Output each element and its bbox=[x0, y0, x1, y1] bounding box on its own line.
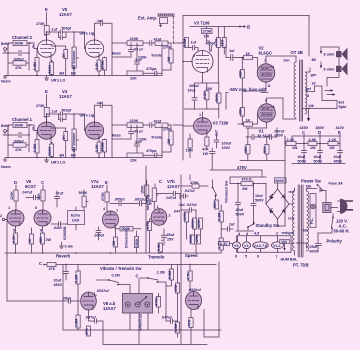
svg-text:2: 2 bbox=[276, 232, 278, 236]
svg-text:1W: 1W bbox=[310, 146, 316, 150]
svg-text:V4,6,7,8: V4,6,7,8 bbox=[254, 244, 268, 248]
svg-text:47K: 47K bbox=[187, 319, 191, 326]
svg-text:C: C bbox=[159, 179, 162, 184]
svg-text:1uf: 1uf bbox=[229, 49, 235, 53]
speaker 1 bbox=[336, 51, 342, 57]
svg-text:.1uf: .1uf bbox=[51, 28, 58, 32]
resistor 5.6M vib bbox=[76, 271, 80, 284]
resistor 560K ch2 bbox=[50, 62, 54, 75]
svg-text:0.2M: 0.2M bbox=[112, 274, 120, 278]
svg-text:270K: 270K bbox=[101, 192, 105, 201]
svg-text:40uf: 40uf bbox=[314, 155, 322, 159]
ground bus ch2 bbox=[5, 75, 162, 77]
resistor 150K dim lower bbox=[134, 237, 138, 248]
svg-text:500V: 500V bbox=[255, 199, 264, 203]
ground bus reverb row bbox=[5, 252, 221, 254]
svg-text:2W: 2W bbox=[46, 238, 52, 242]
capacitor .1uf coupling ch2 bbox=[95, 21, 113, 43]
svg-text:470pa: 470pa bbox=[146, 67, 157, 71]
svg-text:500K: 500K bbox=[189, 234, 193, 243]
resistor 47K vibrato supply bbox=[44, 264, 47, 266]
svg-text:Bass: Bass bbox=[112, 52, 121, 56]
resistor 68K V1 bbox=[240, 108, 244, 117]
svg-text:10uf: 10uf bbox=[255, 194, 263, 198]
svg-text:56K: 56K bbox=[263, 146, 267, 153]
svg-text:2.2M: 2.2M bbox=[183, 39, 187, 47]
resistor 2.2M grid V3a bbox=[185, 38, 189, 48]
svg-text:120K: 120K bbox=[10, 191, 14, 200]
svg-text:8K: 8K bbox=[312, 58, 317, 62]
resistor 270K plate ch1 bbox=[44, 108, 49, 117]
resistor 470K vib bbox=[156, 297, 160, 308]
svg-text:270K: 270K bbox=[36, 104, 45, 108]
svg-text:100: 100 bbox=[281, 240, 287, 244]
resistor 2.2K cathode V6a bbox=[13, 233, 17, 244]
transformer PT core bbox=[298, 185, 303, 257]
svg-text:2.2K: 2.2K bbox=[329, 138, 337, 142]
svg-text:680K: 680K bbox=[215, 93, 219, 102]
svg-text:47K: 47K bbox=[15, 66, 22, 70]
svg-text:120K: 120K bbox=[138, 56, 147, 60]
svg-text:500pf: 500pf bbox=[62, 108, 72, 112]
svg-text:E: E bbox=[338, 130, 341, 135]
resistor 3.3M vib bbox=[219, 238, 223, 250]
svg-text:red: red bbox=[289, 190, 295, 194]
svg-text:2.2K: 2.2K bbox=[287, 138, 295, 142]
svg-text:9: 9 bbox=[13, 229, 15, 233]
svg-text:grn: grn bbox=[311, 73, 318, 77]
resistor 500K spd bbox=[192, 218, 196, 229]
resistor 47K vib left low bbox=[86, 326, 90, 336]
resistor 47K ch1 bbox=[13, 143, 26, 147]
svg-text:2: 2 bbox=[32, 127, 34, 131]
svg-text:HUM BAL: HUM BAL bbox=[281, 258, 299, 262]
resistor 2.2K filter b bbox=[328, 141, 338, 145]
svg-text:.0047uf: .0047uf bbox=[96, 289, 109, 293]
wire speaker top bbox=[309, 16, 339, 87]
transformer OT secondary winding bbox=[305, 72, 307, 114]
transformer OT primary winding bbox=[294, 62, 296, 118]
heater V4678 bbox=[253, 242, 269, 249]
resistor 1K cathode V6b bbox=[29, 234, 33, 244]
svg-text:500pf: 500pf bbox=[62, 26, 72, 30]
svg-text:470K: 470K bbox=[155, 297, 159, 306]
wire to V5b grid bbox=[66, 32, 86, 49]
svg-text:.05 uf: .05 uf bbox=[133, 130, 143, 134]
svg-text:4.7K: 4.7K bbox=[186, 272, 190, 280]
svg-text:Reverb: Reverb bbox=[56, 254, 71, 259]
svg-text:2: 2 bbox=[193, 54, 195, 58]
svg-text:.1uf: .1uf bbox=[96, 19, 103, 23]
svg-text:500V: 500V bbox=[298, 160, 307, 164]
svg-text:25V: 25V bbox=[167, 238, 174, 242]
svg-text:.05uf: .05uf bbox=[62, 297, 71, 301]
svg-text:500K: 500K bbox=[79, 191, 88, 195]
capacitor .005uf ch2 bbox=[19, 51, 21, 56]
wire vib enclosure bbox=[166, 262, 219, 345]
svg-text:1.8M: 1.8M bbox=[174, 324, 178, 332]
svg-text:9: 9 bbox=[235, 255, 237, 259]
svg-text:.047uf: .047uf bbox=[184, 189, 195, 193]
svg-text:40uf: 40uf bbox=[298, 155, 306, 159]
svg-text:PT. 7DB: PT. 7DB bbox=[293, 263, 309, 268]
svg-text:68K: 68K bbox=[239, 70, 243, 77]
resistor 68K bottom bbox=[246, 145, 250, 155]
resistor 3K cathode ch2 bbox=[50, 57, 52, 61]
svg-text:12AX7: 12AX7 bbox=[91, 184, 104, 189]
svg-text:1: 1 bbox=[157, 205, 159, 209]
svg-text:.05 uf: .05 uf bbox=[133, 48, 143, 52]
svg-text:2.2K: 2.2K bbox=[203, 91, 207, 99]
resistor 2.2K cathode V4b bbox=[98, 139, 100, 142]
svg-text:40uf: 40uf bbox=[236, 208, 244, 212]
wire 475V to bridge bbox=[230, 170, 266, 177]
wire to V4b grid bbox=[66, 114, 86, 131]
wire bbox=[27, 43, 38, 49]
ground symbol ch2 bbox=[45, 76, 49, 81]
wire bias rail bbox=[184, 109, 219, 118]
tone stack ch1 top rail bbox=[112, 124, 155, 126]
svg-text:12AX7: 12AX7 bbox=[167, 184, 180, 189]
transformer PT secondary winding bbox=[307, 191, 309, 251]
heater V5 bbox=[233, 242, 241, 249]
svg-text:6.8M: 6.8M bbox=[33, 62, 37, 70]
capacitor cathode V2V1 b bbox=[264, 128, 277, 140]
svg-text:8: 8 bbox=[268, 84, 270, 88]
svg-text:2.2K: 2.2K bbox=[95, 62, 99, 70]
tone mid caps ch2 bbox=[112, 43, 134, 57]
svg-text:475V: 475V bbox=[237, 165, 247, 170]
resistor 6.8M grid leak ch1 bbox=[36, 131, 38, 158]
svg-text:.047: .047 bbox=[173, 210, 180, 214]
svg-text:50K: 50K bbox=[149, 198, 153, 205]
wire plate to bright caps ch1 bbox=[47, 114, 59, 122]
svg-text:gel: gel bbox=[306, 87, 311, 91]
wire plate to bright caps bbox=[47, 32, 59, 40]
svg-text:7: 7 bbox=[276, 255, 278, 259]
svg-text:560K: 560K bbox=[48, 146, 52, 155]
svg-text:100uf: 100uf bbox=[189, 84, 199, 88]
resistor 1M dim bbox=[113, 237, 117, 247]
heater V12 bbox=[272, 242, 284, 249]
svg-text:3K: 3K bbox=[62, 135, 66, 140]
resistor 1.8M vib right bbox=[175, 322, 179, 333]
tube V6a bbox=[7, 210, 24, 226]
svg-text:Dimension: Dimension bbox=[124, 228, 128, 248]
svg-text:6: 6 bbox=[35, 206, 37, 210]
svg-text:1W: 1W bbox=[292, 146, 298, 150]
svg-text:270K: 270K bbox=[203, 30, 212, 34]
svg-text:5.6M: 5.6M bbox=[74, 275, 78, 283]
svg-text:9: 9 bbox=[257, 255, 259, 259]
tone mid caps ch1 bbox=[112, 125, 134, 139]
resistor 1K V1 grid bbox=[244, 122, 253, 126]
svg-text:120K: 120K bbox=[195, 234, 199, 243]
resistor 270K ch1 treble top bbox=[155, 123, 168, 127]
resistor 68K V2 bbox=[240, 70, 244, 79]
bridge rectifier bbox=[266, 189, 289, 219]
svg-text:120K: 120K bbox=[138, 138, 147, 142]
svg-text:Fuse 3A: Fuse 3A bbox=[329, 182, 344, 186]
svg-text:68K: 68K bbox=[244, 146, 248, 153]
svg-text:22K: 22K bbox=[213, 201, 217, 208]
resistor 47K 1W bbox=[205, 137, 209, 146]
wire V1 plate to OT bbox=[267, 98, 297, 119]
svg-text:Vibra/out Sw: Vibra/out Sw bbox=[225, 181, 229, 203]
wire bridge top bbox=[266, 183, 293, 226]
svg-text:900K: 900K bbox=[15, 124, 24, 128]
tube V3b triode bbox=[194, 118, 212, 135]
resistor 500K speed pot bbox=[190, 235, 194, 244]
ground bus ch1 bbox=[5, 157, 162, 159]
wire tremolo feed bbox=[145, 166, 147, 253]
svg-text:1.8M: 1.8M bbox=[74, 319, 78, 327]
resistor 2.2K cathode V5b bbox=[98, 57, 100, 60]
svg-text:5.6K: 5.6K bbox=[157, 243, 161, 251]
svg-text:6: 6 bbox=[92, 115, 94, 119]
resistor 5.6K trem bbox=[158, 243, 162, 252]
tube V2 6L6GC bbox=[257, 64, 275, 82]
svg-text:.1uf: .1uf bbox=[51, 110, 58, 114]
svg-text:E: E bbox=[45, 89, 48, 94]
svg-text:47K: 47K bbox=[202, 148, 209, 152]
svg-text:600V: 600V bbox=[310, 250, 319, 254]
svg-text:1W: 1W bbox=[203, 152, 209, 156]
wire 475V rail bbox=[210, 158, 262, 170]
svg-text:4.7K: 4.7K bbox=[146, 221, 150, 229]
wire filter top rail bbox=[285, 136, 340, 144]
svg-text:1M: 1M bbox=[112, 241, 116, 246]
svg-text:3K: 3K bbox=[62, 53, 66, 58]
svg-text:1W: 1W bbox=[329, 146, 335, 150]
resistor 6.8M grid leak bbox=[36, 49, 38, 76]
svg-text:1M: 1M bbox=[167, 139, 171, 144]
svg-text:220K: 220K bbox=[130, 37, 139, 41]
node B bbox=[240, 26, 244, 28]
heater winding rail top bbox=[238, 235, 292, 237]
ground b dw bbox=[60, 242, 64, 248]
wire PT primary left bbox=[294, 188, 296, 255]
pilot light P.L. bbox=[310, 194, 316, 228]
cathode network V3a bbox=[195, 54, 219, 91]
svg-text:Channel 2: Channel 2 bbox=[12, 35, 33, 40]
svg-text:56K: 56K bbox=[37, 193, 41, 200]
svg-text:8: 8 bbox=[307, 94, 309, 98]
tube V3a pentode bbox=[192, 51, 213, 73]
speaker 2 bbox=[336, 66, 342, 72]
resistor 3K cathode ch1 bbox=[50, 139, 52, 143]
resistor 270K ch2 bass bbox=[103, 58, 107, 71]
svg-text:100V: 100V bbox=[222, 146, 231, 150]
svg-text:C: C bbox=[136, 274, 139, 279]
svg-text:6.3V: 6.3V bbox=[220, 242, 228, 246]
tube V8b bbox=[186, 292, 202, 310]
resistor 4.7K trem cathode bbox=[147, 222, 151, 231]
svg-text:Polarity: Polarity bbox=[327, 239, 343, 244]
svg-text:.7uf: .7uf bbox=[178, 203, 185, 207]
svg-text:1K: 1K bbox=[246, 52, 251, 56]
svg-text:10M: 10M bbox=[174, 285, 178, 292]
svg-text:1M: 1M bbox=[167, 57, 171, 62]
resistor 22K ch1 tone bottom bbox=[127, 153, 143, 158]
wire bbox=[6, 125, 13, 131]
svg-text:5.6M: 5.6M bbox=[218, 213, 222, 221]
wire top 470K bbox=[181, 175, 208, 186]
svg-text:450V: 450V bbox=[54, 283, 63, 287]
tube V7b bbox=[151, 209, 167, 226]
wire vib bottom rails bbox=[63, 265, 221, 331]
resistor 2.2K filter a bbox=[286, 141, 296, 145]
svg-text:600V: 600V bbox=[276, 179, 285, 183]
wire vibrato supply rail bbox=[56, 264, 216, 266]
heater V3 bbox=[243, 242, 251, 249]
svg-text:4,5: 4,5 bbox=[254, 232, 259, 236]
svg-text:C: C bbox=[39, 261, 42, 266]
svg-text:Power Sw: Power Sw bbox=[301, 179, 322, 184]
svg-text:15K: 15K bbox=[221, 39, 225, 46]
svg-text:680: 680 bbox=[39, 237, 43, 243]
svg-text:V5: V5 bbox=[234, 244, 239, 248]
svg-text:Echo: Echo bbox=[71, 214, 81, 218]
resistor 10M vib bbox=[175, 283, 179, 293]
ground arrow OT bbox=[308, 110, 310, 118]
switch vibra out bbox=[212, 187, 214, 189]
svg-text:Ext. Amp.: Ext. Amp. bbox=[138, 16, 157, 21]
svg-text:Treble: Treble bbox=[151, 54, 162, 58]
resistor 120K spd bbox=[184, 212, 188, 222]
resistor 220K ch2 tone bbox=[127, 41, 143, 46]
svg-text:V3 7199: V3 7199 bbox=[194, 21, 210, 26]
resistor 5.6M vib sw bbox=[219, 211, 223, 222]
tube V7a bbox=[103, 211, 119, 228]
svg-text:470 Ω: 470 Ω bbox=[242, 178, 252, 182]
svg-text:1M Volume: 1M Volume bbox=[72, 133, 76, 152]
svg-text:Standby Sw: Standby Sw bbox=[256, 223, 280, 228]
wire bbox=[6, 43, 13, 49]
resistor 270K ch2 treble top bbox=[155, 41, 168, 45]
ground symbol ch1 bbox=[45, 158, 49, 163]
resistor 1K V2 grid bbox=[244, 56, 253, 60]
capacitor cathode V2V1 a bbox=[246, 128, 260, 140]
svg-text:120K: 120K bbox=[183, 212, 187, 221]
svg-text:.005uf: .005uf bbox=[114, 198, 125, 202]
resistor 56K plate V6b bbox=[41, 190, 45, 201]
svg-text:50-60 H.: 50-60 H. bbox=[334, 229, 350, 234]
wire V2 plate to OT bbox=[266, 56, 296, 64]
potentiometer 1M Volume ch2 bbox=[73, 32, 75, 47]
svg-text:6L6GC: 6L6GC bbox=[259, 51, 273, 56]
footswitch box bbox=[123, 294, 153, 314]
svg-text:270K: 270K bbox=[101, 142, 105, 151]
capacitor .005uf ch1 bbox=[19, 133, 21, 138]
svg-text:D: D bbox=[14, 180, 17, 185]
wire PT secondary taps bbox=[291, 242, 307, 245]
svg-text:4.7K: 4.7K bbox=[215, 38, 219, 46]
svg-text:560K: 560K bbox=[48, 64, 52, 73]
svg-text:7: 7 bbox=[116, 209, 118, 213]
svg-text:16: 16 bbox=[312, 82, 316, 86]
potentiometer Intensity 50K bbox=[152, 188, 156, 202]
svg-text:C: C bbox=[41, 180, 44, 185]
tube V4b triode bbox=[85, 122, 103, 139]
wire B+ center tap bbox=[308, 16, 310, 57]
svg-text:.047uf: .047uf bbox=[22, 191, 33, 195]
svg-text:Vibrato / Tremolo Sw: Vibrato / Tremolo Sw bbox=[100, 266, 142, 271]
svg-text:UR's LO: UR's LO bbox=[51, 79, 66, 83]
svg-text:D: D bbox=[318, 130, 321, 135]
svg-text:900K: 900K bbox=[15, 42, 24, 46]
svg-text:Norm: Norm bbox=[1, 165, 11, 169]
svg-text:Tremolo: Tremolo bbox=[148, 255, 165, 260]
resistor 22K vib sw bbox=[215, 200, 219, 209]
svg-text:6.8M: 6.8M bbox=[33, 144, 37, 152]
tube V5b triode bbox=[85, 40, 103, 57]
svg-text:500V: 500V bbox=[236, 213, 245, 217]
svg-text:B: B bbox=[247, 25, 250, 30]
svg-text:.1uf: .1uf bbox=[96, 101, 103, 105]
resistor 6.8K filter bbox=[308, 141, 317, 145]
svg-text:.02uf: .02uf bbox=[53, 226, 62, 230]
svg-text:1: 1 bbox=[199, 113, 201, 117]
svg-text:2.2M: 2.2M bbox=[157, 271, 165, 275]
svg-text:V3: V3 bbox=[244, 244, 249, 248]
resistor 220K ch1 tone bbox=[127, 123, 143, 128]
resistor 47K below V8b bbox=[189, 318, 193, 328]
svg-text:Unit: Unit bbox=[72, 219, 80, 223]
resistor 47K ch2 bbox=[13, 61, 26, 65]
speaker jack 2 bbox=[320, 62, 322, 66]
resistor 15M bbox=[188, 139, 192, 148]
svg-text:.005uf: .005uf bbox=[94, 234, 105, 238]
capacitor 20uf 450V bbox=[338, 144, 343, 164]
svg-text:470pa: 470pa bbox=[146, 149, 157, 153]
svg-text:6.8K: 6.8K bbox=[309, 138, 317, 142]
potentiometer 1M Volume ch1 bbox=[73, 114, 75, 129]
wire input shunt left bbox=[8, 43, 29, 76]
svg-text:V1,2: V1,2 bbox=[273, 244, 281, 248]
svg-text:Channel 1: Channel 1 bbox=[12, 117, 33, 122]
svg-text:270K: 270K bbox=[101, 60, 105, 69]
svg-text:UR's LO: UR's LO bbox=[51, 161, 66, 165]
wire V2 cathode bbox=[242, 82, 266, 91]
resistor 500K dim pot bbox=[120, 227, 133, 231]
svg-text:2.2K: 2.2K bbox=[95, 144, 99, 152]
svg-text:1: 1 bbox=[8, 206, 10, 210]
svg-text:Treble: Treble bbox=[151, 136, 162, 140]
svg-text:red/grn: red/grn bbox=[282, 231, 295, 235]
svg-text:450V: 450V bbox=[334, 160, 343, 164]
svg-text:220K: 220K bbox=[130, 119, 139, 123]
transformer OT core bbox=[300, 60, 303, 121]
capacitor .1uf coupling ch1 bbox=[95, 103, 113, 125]
wire filter feed bbox=[284, 164, 286, 227]
resistor 120K plate V6a bbox=[14, 190, 18, 201]
svg-text:6L6GC: 6L6GC bbox=[258, 134, 272, 139]
capacitor 40uf 500V a bbox=[302, 144, 307, 164]
resistor 56K bottom bbox=[265, 145, 269, 155]
label 600V bbox=[275, 178, 287, 183]
svg-text:1M Volume: 1M Volume bbox=[72, 51, 76, 70]
resistor 560K ch1 bbox=[50, 144, 54, 157]
resistor 680 2W bbox=[40, 233, 44, 244]
svg-text:6CG7: 6CG7 bbox=[25, 184, 37, 189]
resistor 120K spd b bbox=[198, 218, 202, 229]
svg-text:OT 2B: OT 2B bbox=[291, 50, 303, 55]
resistor 270K plate ch2 bbox=[44, 26, 49, 35]
svg-text:22K: 22K bbox=[130, 159, 137, 163]
wire V1 cathode bbox=[246, 122, 267, 128]
tube V1 6L6GC bbox=[258, 104, 276, 122]
